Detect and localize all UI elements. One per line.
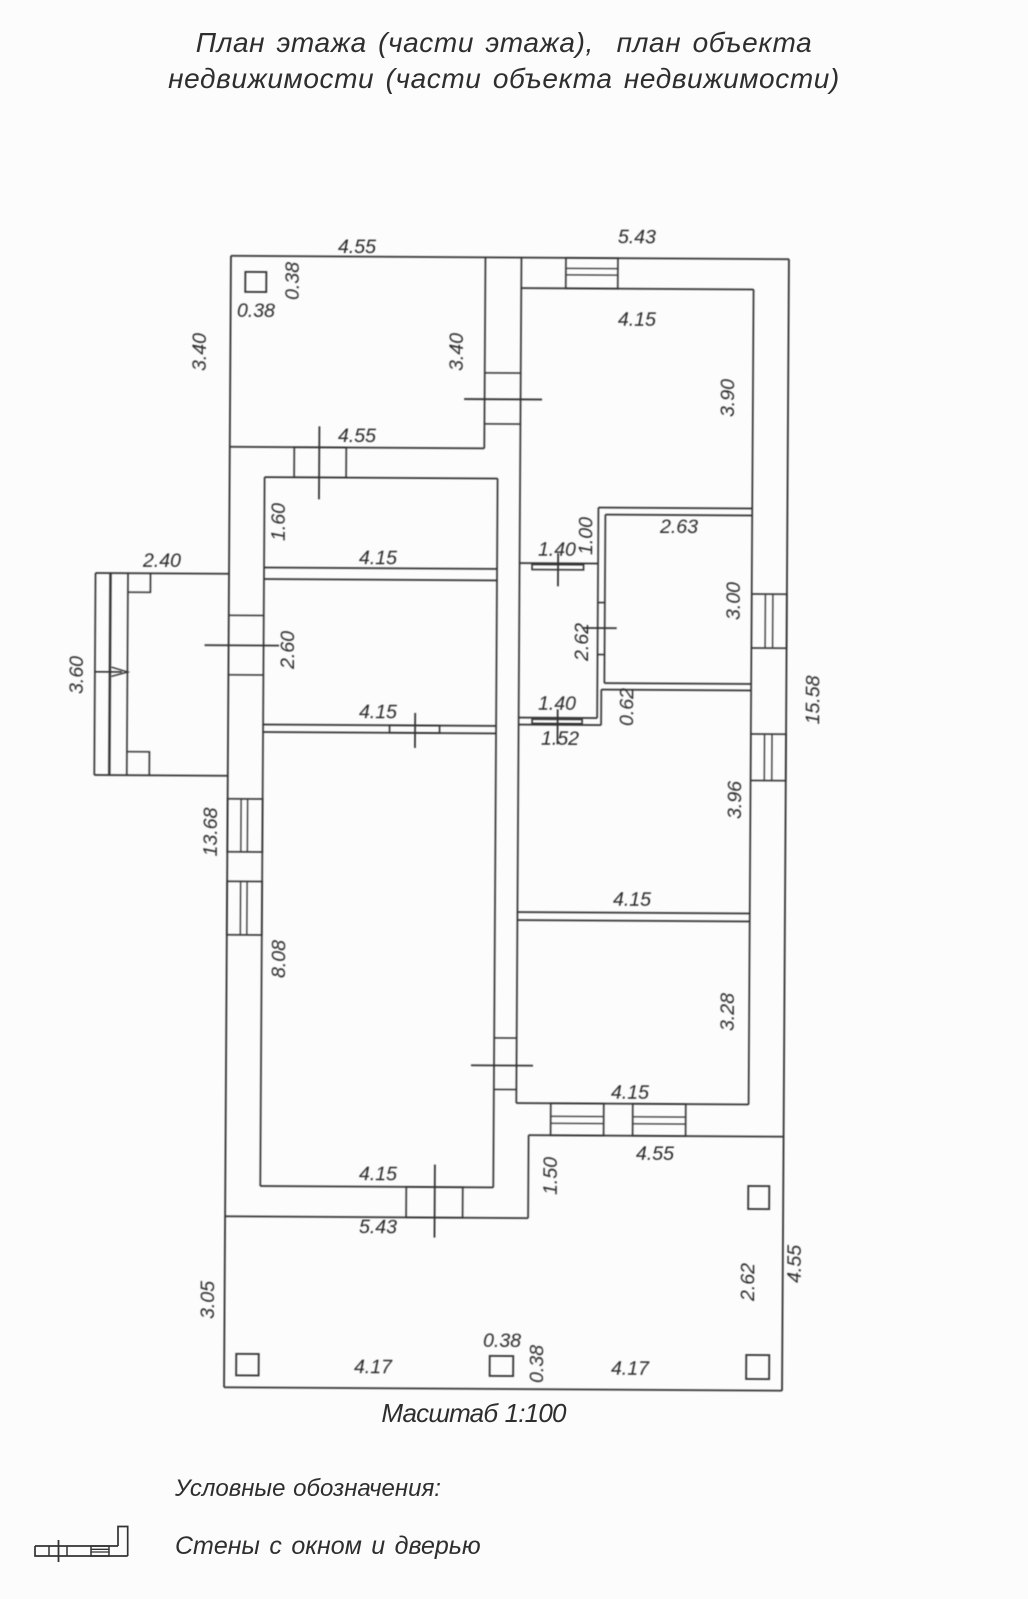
wall segment 1.00 x596.5 [597,508,598,718]
room 8.08 top edge [263,732,496,733]
legend wall division 1 [48,1546,50,1556]
svg-text:1.52: 1.52 [541,728,579,750]
door D7 room 8.08 bottom [406,1187,463,1218]
svg-text:4.17: 4.17 [611,1358,650,1380]
room 1.60 corridor top edge [265,477,498,478]
room 3.96 step vertical [600,690,602,725]
svg-text:0.38: 0.38 [282,262,304,300]
room 2.63 top edge [605,514,752,517]
outer wall right [782,259,789,1390]
svg-text:1.60: 1.60 [268,503,290,541]
room 3.96 step horizontal [519,724,601,727]
door D4 top rooms jambs [485,372,521,374]
porch step top [128,573,151,592]
svg-text:4.15: 4.15 [613,889,651,911]
svg-text:4.55: 4.55 [784,1245,806,1283]
door D1 porch jambs [229,614,264,616]
room 3.28 bottom edge [516,1103,748,1104]
svg-text:3.28: 3.28 [717,993,739,1031]
window left wall upper [227,799,262,852]
pillar 0.38 top-left [245,272,266,292]
window bottom wall right [633,1104,686,1136]
room 1.60 corridor bottom edge [264,568,497,569]
svg-text:2.62: 2.62 [571,623,593,662]
svg-text:1.40: 1.40 [538,539,576,561]
door D6 hall bottom [532,719,582,724]
legend item text [175,1532,481,1561]
porch top edge [96,572,229,575]
veranda step vertical [527,1135,530,1218]
svg-text:0.38: 0.38 [526,1345,548,1383]
outer wall top [231,256,789,259]
room 2.60 bottom edge [263,725,496,726]
svg-text:3.40: 3.40 [189,333,211,371]
svg-text:1.00: 1.00 [575,517,597,555]
svg-text:3.05: 3.05 [197,1281,219,1319]
outer wall bottom [224,1387,782,1390]
room 3.28 top edge [517,920,749,921]
interior wall x482 (top-left room right side) [484,257,485,448]
window right wall upper (room 3.00) [751,594,787,648]
porch inner line 1 [109,573,110,775]
svg-text:3.90: 3.90 [717,379,739,417]
room 3.96 top edge [601,689,751,692]
room 2.60 top edge [264,579,497,580]
svg-text:4.17: 4.17 [354,1356,393,1378]
window top wall [566,258,618,289]
svg-text:4.15: 4.15 [618,309,656,331]
opening hall to room 2.63 [598,602,605,604]
room 3.96 bottom edge [517,912,749,913]
svg-text:3.60: 3.60 [66,656,88,694]
scale caption [0,1398,947,1429]
svg-text:2.60: 2.60 [277,631,299,670]
legend heading [175,1475,441,1503]
veranda left-part top edge [225,1216,528,1218]
porch left edge [94,573,95,775]
svg-text:15.58: 15.58 [802,675,824,724]
window left wall lower [227,881,262,935]
svg-text:0.62: 0.62 [616,688,638,726]
svg-text:1.50: 1.50 [540,1157,562,1195]
legend door tick [58,1540,60,1562]
porch stair direction arrow [95,671,122,673]
svg-text:4.55: 4.55 [636,1143,674,1165]
svg-text:0.38: 0.38 [237,300,275,322]
outer wall left [224,256,231,1387]
room 8.08 bottom edge [260,1186,493,1187]
svg-text:1.40: 1.40 [538,693,576,715]
wall left-column rooms left side x262.5 [260,477,264,1186]
svg-text:5.43: 5.43 [618,226,656,248]
door D2 corridor [294,447,346,477]
svg-text:3.40: 3.40 [446,333,468,371]
legend window [91,1546,109,1556]
svg-text:4.15: 4.15 [359,1163,397,1185]
svg-text:3.00: 3.00 [723,582,745,620]
room 3.90 bottom edge [598,507,752,510]
room 3.90 top edge [521,288,753,289]
right column rooms right edge x750 [749,289,754,1104]
svg-text:4.55: 4.55 [338,425,376,447]
svg-text:4.15: 4.15 [359,701,397,723]
svg-text:5.43: 5.43 [359,1216,397,1238]
svg-text:4.15: 4.15 [359,547,397,569]
porch bottom edge [94,774,227,777]
pillar bottom-right [746,1355,769,1379]
door D5 hall top [532,564,584,569]
legend wall bar [35,1546,128,1556]
wall left-column rooms right side x495.5 [493,479,497,1188]
svg-text:2.62: 2.62 [737,1263,759,1302]
pillar bottom-left [236,1354,259,1376]
svg-text:13.68: 13.68 [200,807,222,856]
legend door leaf L-shape [118,1527,128,1557]
pillar bottom-middle [490,1356,514,1376]
svg-text:0.38: 0.38 [483,1330,521,1352]
room 2.63 left edge [604,515,605,683]
window right wall lower (room 3.96) [751,734,786,781]
wall top-left section bottom [230,447,484,449]
svg-text:2.63: 2.63 [659,516,698,538]
door D3 room 2.60 [390,725,440,733]
veranda top edge [529,1135,784,1137]
svg-text:3.96: 3.96 [724,781,746,819]
window bottom wall left [551,1103,604,1135]
svg-text:4.15: 4.15 [611,1082,649,1104]
legend wall division 2 [66,1546,68,1556]
svg-text:2.40: 2.40 [142,550,181,572]
svg-text:4.55: 4.55 [338,236,376,258]
svg-text:8.08: 8.08 [268,940,290,978]
porch inner line 2 [127,573,128,775]
porch step bottom [127,752,150,776]
door D8 room 3.28 jambs [494,1037,516,1039]
pillar right upper [748,1186,769,1209]
page title [0,25,1008,97]
hall bottom edge [519,717,597,719]
interior wall x518 (right column left side) [516,258,521,1103]
room 2.63 bottom edge [604,682,751,685]
hall top edge [520,562,598,564]
